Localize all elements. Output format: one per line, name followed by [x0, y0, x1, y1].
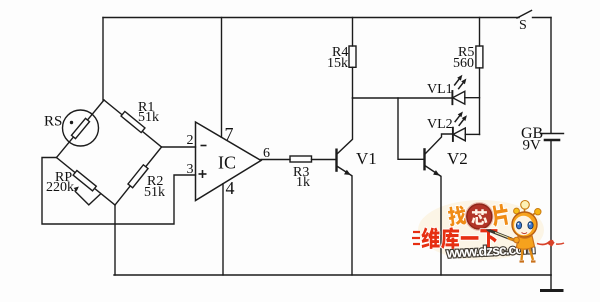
- svg-text:IC: IC: [218, 153, 236, 173]
- svg-text:VL1: VL1: [427, 82, 453, 97]
- svg-text:4: 4: [226, 178, 235, 198]
- svg-text:2: 2: [187, 133, 194, 148]
- svg-text:560: 560: [453, 56, 474, 71]
- svg-text:RS: RS: [44, 114, 62, 130]
- svg-text:6: 6: [263, 146, 270, 161]
- svg-text:7: 7: [225, 124, 234, 144]
- svg-text:1k: 1k: [296, 175, 310, 190]
- svg-text:3: 3: [187, 162, 194, 177]
- svg-text:220k: 220k: [46, 180, 74, 195]
- svg-text:15k: 15k: [327, 56, 348, 71]
- svg-text:VL2: VL2: [427, 117, 453, 132]
- svg-text:9V: 9V: [523, 138, 542, 154]
- svg-text:51k: 51k: [144, 185, 165, 200]
- svg-text:51k: 51k: [138, 110, 159, 125]
- svg-text:V2: V2: [447, 149, 468, 168]
- svg-text:S: S: [519, 18, 527, 33]
- svg-text:V1: V1: [356, 149, 377, 168]
